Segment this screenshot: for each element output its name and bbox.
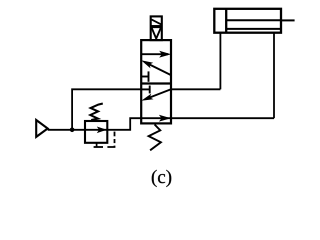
wire: junction up and right to valve left mid [72, 89, 141, 130]
wire: valve right mid to cylinder left port [171, 88, 220, 90]
valve position divider [141, 82, 171, 84]
pilot triangle [151, 27, 161, 38]
junction dot [70, 128, 75, 133]
valve V1 body (two position boxes) [141, 40, 171, 123]
wire: cylinder left port down [219, 33, 221, 90]
wire: cylinder right port down [273, 33, 275, 119]
piston rod bottom line [226, 28, 281, 30]
caption (c) [152, 170, 171, 187]
valve return spring [149, 125, 161, 151]
regulator flow arrow [85, 129, 107, 131]
regulator adjustment spring [90, 104, 103, 121]
wire: regulator output to valve bottom left [107, 118, 141, 130]
valve blocked port T1 [141, 76, 148, 78]
piston rod extension [281, 19, 295, 21]
piston rod top line [226, 19, 281, 21]
cylinder body [214, 9, 281, 33]
solenoid slash [151, 19, 161, 24]
solenoid pilot actuator box [151, 16, 162, 40]
solenoid divider [151, 25, 162, 27]
wire: valve bottom right to cylinder right port [171, 117, 274, 119]
piston [225, 9, 227, 33]
regulator pilot stub [96, 143, 98, 147]
pressure source triangle [36, 120, 48, 137]
valve blocked port T2 [141, 88, 150, 90]
wire: source to regulator [48, 129, 85, 131]
valve top box flow arrow (right) [141, 53, 168, 55]
valve top box diagonal arrow (up-left) [147, 63, 172, 75]
regulator pilot dashed line [94, 146, 103, 148]
valve bottom box flow arrow (right) [141, 117, 171, 119]
regulator R1 body [85, 121, 107, 143]
valve bottom box diagonal arrow (down-left) [147, 89, 171, 98]
